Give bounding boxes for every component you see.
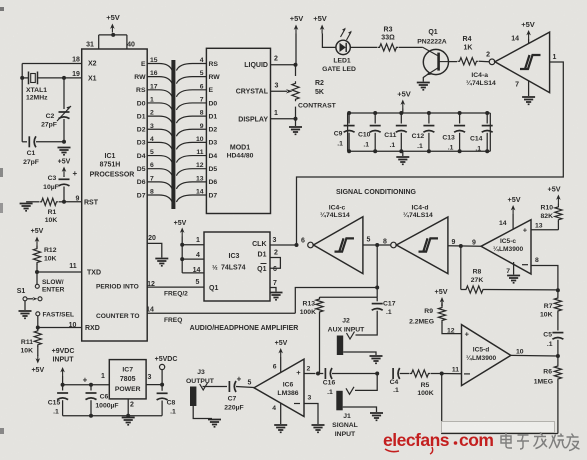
capacitor C7 220uF (203, 375, 255, 412)
node J1 tap (375, 372, 379, 376)
switch S1 upper contact SLOW/ENTER (35, 272, 64, 294)
J2 sleeve ground (343, 352, 382, 363)
+5VDC output terminal (155, 356, 178, 385)
MOD1 right labels LIQUID CRYSTAL DISPLAY (236, 62, 269, 123)
resistor R10 82K (541, 185, 562, 230)
wire R10 to pin 13 (531, 223, 558, 230)
capacitor C5 .1 (543, 332, 563, 357)
capacitor C6 1000uF (86, 385, 119, 416)
+5V below R11 (31, 346, 44, 374)
IC3 pin 1 wire (180, 237, 204, 247)
ground under S1 pole (19, 301, 32, 319)
IC4-a output wire loop to signal conditioning (297, 62, 564, 245)
IC3 D1 to Q1bar loop (257, 250, 280, 274)
+5V feed to R12 (31, 228, 44, 248)
data bus (thick) (171, 60, 175, 209)
wire IC4-c out to IC4-d in (363, 239, 391, 248)
capacitor C2 27pF (trimmer) (41, 78, 71, 142)
FREQ riser wire (295, 288, 377, 314)
+5V feed to C3 (58, 159, 71, 178)
MOD1 pin 1 wire (271, 110, 298, 121)
switch S1 pole and arm (23, 297, 42, 301)
crystal XTAL1 12MHz (22, 72, 64, 102)
MOD1 pin 3 wire to wiper (271, 83, 293, 94)
J3 sleeve ground (193, 406, 221, 427)
wire X2 (22, 63, 81, 65)
resistor R4 1K (449, 36, 490, 65)
IC4-a 74LS14 schmitt inverter (466, 32, 557, 93)
CJK watermark (501, 433, 580, 451)
+9VDC input arrow (60, 367, 65, 385)
resistor R11 10K (21, 328, 42, 355)
IC3 74LS74 body (204, 232, 270, 301)
IC6 pin 3 ground (304, 395, 325, 433)
IC1 left pin labels (84, 61, 139, 333)
bypass cap labels (334, 131, 483, 153)
jack J3 OUTPUT (186, 369, 215, 406)
switch S1 label (17, 288, 26, 295)
IC3 pin 14 wire (182, 267, 204, 274)
IC5-c pin 7 ground (506, 262, 520, 283)
capacitor C3 10uF (43, 169, 77, 202)
IC6 pin 4 ground (272, 403, 287, 432)
resistor R9 2.2MEG (409, 304, 461, 334)
pin number 18 (72, 57, 80, 64)
wire X1 (62, 76, 82, 80)
capacitor C17 .1 (356, 297, 396, 335)
LED1 GATE LED (322, 28, 356, 73)
+5V to IC5-c pin 14 (508, 195, 521, 229)
resistor R1 10K (26, 198, 64, 224)
ground under R2 (289, 119, 302, 135)
IC3 pin 4 wire (180, 252, 204, 261)
pin number 11 / TXD wire (35, 263, 82, 274)
watermark box artifact (442, 422, 555, 433)
+5V feed to LED1 (313, 14, 336, 47)
node junction CLK/IC4-a/IC4-c (295, 238, 306, 248)
pin 2 ground of IC7 (63, 399, 163, 425)
node A drop to R13/C17 (375, 245, 379, 297)
capacitor C16 .1 (318, 368, 377, 396)
feedback wire bottom (442, 374, 558, 434)
IC4-a pin 7 ground (522, 81, 535, 105)
jack J1 SIGNAL INPUT (332, 387, 358, 438)
IC6 LM386 audio amp (254, 359, 304, 416)
capacitor C1 27pF (22, 136, 66, 166)
MOD1 HD44780 LCD body (206, 48, 270, 213)
IC4-c 74LS14 schmitt inverter (308, 205, 371, 274)
pin number 10 / RXD wire (36, 322, 82, 330)
node left rail (20, 64, 24, 142)
Q1 emitter to ground (417, 75, 430, 90)
+5V feed to cap bank (397, 90, 411, 114)
pin 3 output wire (146, 374, 164, 387)
pin number 14 / FREQ wire (146, 307, 295, 324)
bus wires (147, 64, 206, 203)
transistor Q1 PN2222A (417, 29, 448, 75)
wire IC4-d out to IC5-c (448, 240, 481, 249)
elecfans.com watermark (383, 430, 493, 454)
IC5-c LM3900 amp (481, 220, 531, 274)
capacitor C4 .1 (390, 368, 409, 394)
wire R13 top (320, 296, 378, 298)
+5V feed to IC3 (174, 220, 187, 273)
output node of IC5-d (556, 354, 560, 358)
J1 tip wire (355, 374, 377, 391)
bypass capacitor rails (344, 111, 493, 153)
pin 11 wire (440, 372, 462, 376)
IC3 CLK pin 3 wire (252, 237, 296, 248)
IC5-d output wire (511, 349, 558, 357)
+5V to IC4-a pin 14 (521, 20, 535, 44)
J1 sleeve ground (343, 407, 383, 420)
resistor R3 33ohm (350, 27, 423, 52)
AUDIO/HEADPHONE AMPLIFIER title (190, 325, 299, 332)
ground under cap bank (396, 151, 409, 164)
pin number 19 (72, 71, 80, 78)
jack J2 AUX INPUT (328, 318, 365, 356)
switch S1 lower contact FAST/SEL (36, 312, 74, 328)
ground under C2 (58, 148, 71, 155)
IC6 pin 2 wire (304, 366, 320, 376)
pin number 12 / FREQ/2 wire (147, 281, 204, 298)
IC5-d LM3900 amp (447, 325, 511, 386)
resistor R12 10K (33, 247, 56, 272)
resistor R13 100K (300, 297, 323, 374)
SIGNAL CONDITIONING title (336, 189, 417, 196)
capacitor C8 .1 (157, 385, 176, 416)
IC1 8751H processor body (82, 49, 148, 341)
IC4-d 74LS14 schmitt inverter (391, 205, 456, 274)
pin number 9 / RST wire (62, 196, 82, 204)
wire 9V to IC7 (61, 373, 110, 387)
+5V feed to contrast pot (290, 14, 304, 65)
+5V to IC6 pin 6 (273, 340, 288, 372)
potentiometer R2 5K CONTRAST (292, 65, 337, 119)
capacitor C15 .1 (48, 385, 68, 416)
ground left of R1 (20, 204, 33, 211)
resistor R7 10K (540, 290, 561, 330)
+5V under bus is IC3 rail (none here) (0, 0, 1, 1)
IC7 7805 regulator (109, 360, 146, 399)
resistor R5 100K (410, 370, 442, 397)
IC3 pin 7 ground (270, 280, 283, 300)
pin number 20 / ground wire (147, 235, 168, 266)
MOD1 pin 2 wire (271, 56, 298, 67)
scan artifact marks (0, 7, 4, 434)
power +5V rail to IC1 pins 31,40 (86, 13, 135, 49)
resistor R6 1MEG (534, 356, 562, 434)
+5V to R9 (435, 287, 448, 306)
+9VDC INPUT label (52, 348, 75, 364)
IC3 pin 5 Q1 label (196, 279, 219, 292)
resistor R8 27K feedback (461, 246, 560, 293)
bus pin labels (134, 57, 220, 199)
wire pin 8 of IC5-c (531, 257, 558, 290)
